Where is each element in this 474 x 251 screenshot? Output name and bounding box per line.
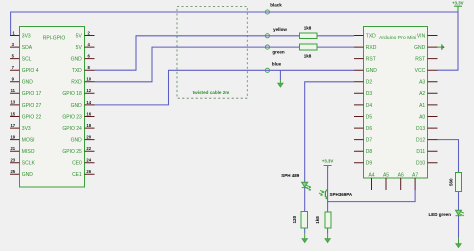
svg-text:1k8: 1k8 — [304, 53, 312, 58]
svg-text:11: 11 — [11, 88, 16, 93]
svg-text:GND: GND — [22, 80, 34, 86]
svg-text:TXD: TXD — [72, 68, 82, 74]
svg-text:GND: GND — [366, 68, 378, 74]
svg-text:SCL: SCL — [22, 57, 32, 63]
svg-text:13: 13 — [10, 100, 15, 105]
svg-text:D2: D2 — [366, 80, 373, 86]
svg-text:green: green — [272, 49, 285, 54]
svg-text:25: 25 — [10, 169, 15, 174]
svg-text:19: 19 — [10, 134, 15, 139]
svg-text:A2: A2 — [419, 91, 425, 97]
svg-text:RXD: RXD — [71, 80, 82, 86]
svg-text:VCC: VCC — [415, 68, 426, 74]
svg-text:D12: D12 — [416, 138, 425, 144]
svg-text:GND: GND — [22, 172, 34, 178]
svg-text:D7: D7 — [366, 138, 373, 144]
svg-text:GPIO 17: GPIO 17 — [22, 91, 42, 97]
svg-text:SPH 489: SPH 489 — [281, 173, 300, 178]
svg-text:A4: A4 — [368, 172, 374, 178]
svg-text:A5: A5 — [383, 172, 389, 178]
svg-text:9: 9 — [12, 77, 15, 82]
svg-text:4: 4 — [88, 42, 91, 47]
svg-text:A7: A7 — [412, 172, 418, 178]
svg-text:D3: D3 — [366, 91, 373, 97]
svg-text:7: 7 — [12, 65, 15, 70]
svg-text:RST: RST — [415, 57, 425, 63]
svg-text:24: 24 — [86, 158, 91, 163]
svg-text:5: 5 — [12, 53, 15, 58]
svg-text:1k8: 1k8 — [315, 216, 320, 224]
svg-text:MOSI: MOSI — [22, 138, 35, 144]
svg-text:A0: A0 — [419, 114, 425, 120]
svg-text:23: 23 — [10, 158, 15, 163]
svg-text:MISO: MISO — [22, 149, 35, 155]
svg-text:GND: GND — [71, 57, 83, 63]
svg-text:17: 17 — [10, 123, 15, 128]
svg-text:GPIO 4: GPIO 4 — [22, 68, 39, 74]
svg-text:D10: D10 — [416, 161, 425, 167]
svg-text:18: 18 — [86, 123, 91, 128]
svg-text:1: 1 — [12, 30, 15, 35]
svg-text:D4: D4 — [366, 103, 373, 109]
svg-text:22: 22 — [86, 146, 91, 151]
svg-text:GND: GND — [414, 45, 426, 51]
svg-text:120: 120 — [292, 215, 297, 223]
svg-text:12: 12 — [86, 88, 91, 93]
svg-text:GPIO 27: GPIO 27 — [22, 103, 42, 109]
svg-text:26: 26 — [86, 169, 91, 174]
svg-text:CE0: CE0 — [72, 161, 82, 167]
svg-text:D8: D8 — [366, 149, 373, 155]
svg-text:16: 16 — [86, 111, 91, 116]
svg-text:D5: D5 — [366, 114, 373, 120]
svg-text:21: 21 — [10, 146, 15, 151]
svg-text:SCLK: SCLK — [22, 161, 36, 167]
svg-text:VIN: VIN — [417, 33, 426, 39]
svg-text:D6: D6 — [366, 126, 373, 132]
svg-text:1k8: 1k8 — [304, 26, 312, 31]
svg-text:A3: A3 — [419, 80, 425, 86]
svg-text:GND: GND — [71, 138, 83, 144]
svg-text:yellow: yellow — [273, 27, 287, 32]
svg-text:GPIO 25: GPIO 25 — [62, 149, 82, 155]
svg-text:GPIO 24: GPIO 24 — [62, 126, 82, 132]
svg-text:LED green: LED green — [428, 212, 451, 217]
svg-text:black: black — [270, 2, 282, 7]
svg-text:RXD: RXD — [366, 45, 377, 51]
svg-text:SPH369PA: SPH369PA — [330, 192, 353, 197]
svg-text:D11: D11 — [416, 149, 425, 155]
svg-text:D9: D9 — [366, 161, 373, 167]
svg-text:20: 20 — [86, 135, 91, 140]
svg-text:CE1: CE1 — [72, 172, 82, 178]
svg-text:5V: 5V — [76, 45, 83, 51]
svg-text:2: 2 — [88, 30, 91, 35]
svg-text:SDA: SDA — [22, 45, 33, 51]
svg-text:3V3: 3V3 — [22, 33, 31, 39]
svg-text:3: 3 — [12, 42, 15, 47]
svg-text:+3.3V: +3.3V — [452, 0, 463, 5]
svg-text:560: 560 — [448, 178, 453, 186]
svg-text:twisted cable 2m: twisted cable 2m — [193, 90, 230, 95]
svg-text:3V3: 3V3 — [22, 126, 31, 132]
svg-text:5V: 5V — [76, 33, 83, 39]
svg-text:8: 8 — [88, 65, 91, 70]
svg-text:GPIO 18: GPIO 18 — [62, 91, 82, 97]
svg-text:GPIO 23: GPIO 23 — [62, 114, 82, 120]
svg-text:15: 15 — [10, 111, 15, 116]
svg-text:D13: D13 — [416, 126, 425, 132]
svg-text:RST: RST — [366, 57, 376, 63]
svg-text:+3.3V: +3.3V — [322, 159, 333, 164]
svg-text:6: 6 — [88, 54, 91, 59]
svg-text:14: 14 — [86, 100, 91, 105]
svg-text:10: 10 — [86, 77, 91, 82]
svg-text:blue: blue — [272, 62, 282, 67]
svg-text:A1: A1 — [419, 103, 425, 109]
svg-text:TXD: TXD — [366, 33, 376, 39]
svg-text:Arduino Pro Mini: Arduino Pro Mini — [379, 35, 416, 41]
svg-text:GND: GND — [71, 103, 83, 109]
svg-text:GPIO 22: GPIO 22 — [22, 114, 42, 120]
svg-text:A6: A6 — [398, 172, 404, 178]
svg-text:RPI-GPIO: RPI-GPIO — [43, 35, 66, 41]
